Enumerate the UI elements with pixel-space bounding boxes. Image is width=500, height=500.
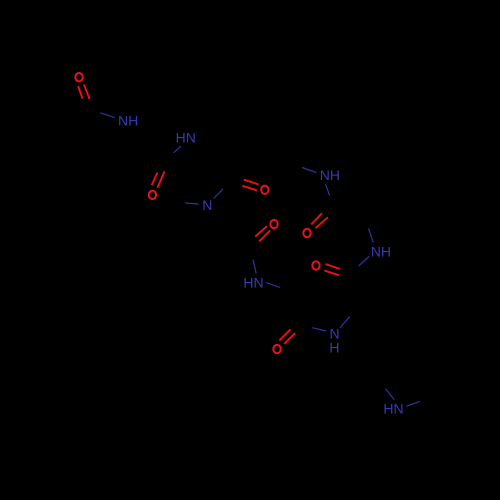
svg-text:N: N xyxy=(202,197,212,213)
bond N4-C5 half xyxy=(326,184,330,196)
bond C7-N5 half xyxy=(369,229,374,243)
bond CH3-N3 half xyxy=(185,203,198,204)
bond C13-N8 half xyxy=(386,389,395,400)
atom O6 label xyxy=(312,261,319,269)
bond C2=O2 double bond xyxy=(152,171,165,187)
svg-text:H: H xyxy=(329,340,339,356)
bond C1=O1 double bond xyxy=(78,84,89,99)
bond C5=O5 double bond xyxy=(311,213,328,228)
atom O4 label xyxy=(270,220,277,228)
bond C1-N1 half xyxy=(100,113,114,118)
svg-text:NH: NH xyxy=(118,112,138,128)
bond C9-N6 half xyxy=(253,260,256,274)
bond C8=O6 double bond xyxy=(324,264,340,275)
bond C11=O7 double bond xyxy=(279,329,295,344)
atom O5 label xyxy=(303,229,310,237)
bond N3-C3 half xyxy=(214,189,223,199)
svg-text:NH: NH xyxy=(320,167,340,183)
atom O7 label xyxy=(273,345,280,353)
bond C4-N4 half xyxy=(302,168,317,173)
bond C11-N7 half xyxy=(312,328,326,331)
atom O1 label xyxy=(75,73,82,81)
bond N8-C14 half xyxy=(406,401,420,406)
bond N2-C2 half xyxy=(174,146,181,153)
svg-text:NH: NH xyxy=(371,243,391,259)
bond N7-C12 half xyxy=(340,317,350,328)
bond C6=O4 double bond xyxy=(255,226,270,241)
svg-text:HN: HN xyxy=(243,275,263,291)
bond N6-C10 half xyxy=(266,283,280,288)
atom O3 label xyxy=(261,186,268,194)
bond N5-C8 half xyxy=(359,256,369,266)
bond C3=O3 double bond xyxy=(242,180,258,191)
svg-text:HN: HN xyxy=(176,130,196,146)
atom O2 label xyxy=(149,191,156,199)
svg-text:HN: HN xyxy=(383,401,403,417)
